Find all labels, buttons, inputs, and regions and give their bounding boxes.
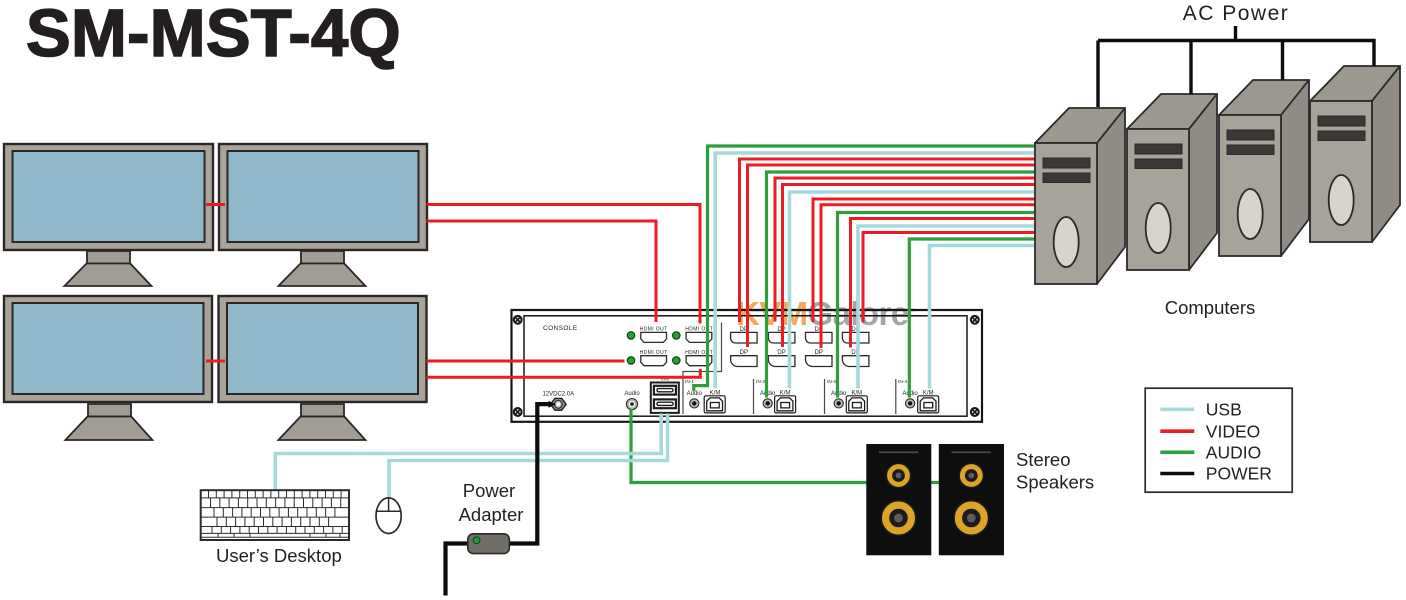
legend VIDEO line — [1160, 429, 1194, 433]
computer tower 1 — [1035, 108, 1125, 284]
wire video DP IN-1 row2 to computer 1 — [748, 165, 1038, 347]
DP port IN-2 row2 — [768, 350, 795, 366]
svg-text:POWER: POWER — [1206, 464, 1272, 484]
wire usb K/M IN-1 to computer 1 — [715, 153, 1037, 389]
svg-text:12VDC2.0A: 12VDC2.0A — [542, 392, 574, 398]
IN-2 K/M USB-B port — [775, 390, 796, 413]
IN-2 Audio jack — [760, 391, 776, 408]
IN-1 Audio jack — [687, 391, 703, 408]
svg-text:AC Power: AC Power — [1183, 2, 1290, 25]
IN-3 separator — [824, 379, 826, 414]
wire video DP IN-4 row2 to computer 4 — [851, 219, 1038, 348]
DP port IN-3 row2 — [806, 350, 833, 366]
wire usb K/M IN-4 to computer 4 — [930, 246, 1038, 389]
wire usb keyboard to console — [275, 414, 661, 491]
LED 3 — [627, 357, 634, 364]
wire AC power label tick — [1234, 26, 1237, 41]
DP port IN-2 row1 — [768, 327, 795, 343]
wire audio IN-3 to computer 3 — [838, 213, 1038, 398]
console/input divider — [683, 323, 722, 415]
console Audio jack — [624, 391, 640, 410]
wire audio console to speakers — [631, 409, 867, 483]
wire usb K/M IN-2 to computer 2 — [790, 192, 1038, 389]
screw top-left — [514, 316, 522, 324]
svg-text:IN-2: IN-2 — [756, 379, 765, 385]
HDMI OUT port 3 (row2 col1) — [640, 350, 668, 366]
wire AC drop computer 1 — [1096, 41, 1099, 108]
wire AC drop computer 3 — [1281, 41, 1284, 81]
DP port IN-4 row2 — [842, 350, 869, 366]
legend box — [1145, 388, 1292, 492]
DP port IN-4 row1 — [842, 327, 869, 343]
speaker left — [866, 444, 931, 555]
legend USB line — [1160, 407, 1194, 411]
DP port IN-3 row1 — [806, 327, 833, 343]
svg-text:USB: USB — [1206, 399, 1242, 419]
svg-text:SM-MST-4Q: SM-MST-4Q — [26, 0, 401, 71]
svg-text:HDMI OUT: HDMI OUT — [640, 326, 668, 332]
svg-text:IN-3: IN-3 — [827, 379, 836, 385]
wire power adapter to outlet — [446, 544, 469, 596]
monitor M3 (bottom-left) — [4, 296, 212, 440]
keyboard — [201, 490, 349, 540]
wire video M2 to HDMI port 2 — [427, 205, 701, 324]
svg-text:IN-4: IN-4 — [898, 379, 907, 385]
wire video M1-M2 bridge — [206, 203, 225, 206]
legend AUDIO line — [1160, 450, 1194, 454]
svg-text:HDMI OUT: HDMI OUT — [640, 350, 668, 356]
monitor M4 (bottom-right) — [219, 296, 427, 440]
IN-1 K/M USB-B port — [704, 390, 725, 413]
mouse — [376, 498, 401, 534]
wire video DP IN-2 row2 to computer 2 — [783, 185, 1038, 348]
DP port IN-1 row2 — [731, 350, 758, 366]
wire AC drop computer 2 — [1189, 41, 1192, 95]
HDMI OUT port 4 (row2 col2) — [685, 350, 713, 366]
svg-text:Adapter: Adapter — [459, 504, 524, 525]
IN-2 separator — [753, 379, 755, 414]
wire video M2 to HDMI port 1 — [427, 221, 657, 322]
svg-text:AUDIO: AUDIO — [1206, 443, 1261, 463]
wire video DP IN-3 row1 to computer 3 — [813, 199, 1037, 322]
wire video M4 to HDMI port 4 — [427, 369, 701, 377]
screw bottom-left — [514, 408, 522, 416]
LED 1 — [627, 332, 634, 339]
svg-text:Audio: Audio — [624, 391, 640, 397]
12VDC power jack — [542, 392, 574, 411]
DP port IN-1 row1 — [731, 327, 758, 343]
svg-text:Power: Power — [463, 480, 515, 501]
wire usb mouse to console — [389, 414, 668, 499]
wire audio IN-4 to computer 4 — [909, 239, 1037, 398]
wire video DP IN-2 row1 to computer 2 — [775, 178, 1037, 322]
screw bottom-right — [971, 408, 979, 416]
computer tower 3 — [1219, 80, 1309, 256]
svg-text:User’s Desktop: User’s Desktop — [216, 545, 342, 566]
wire power KVM jack to adapter — [510, 404, 550, 543]
wire audio IN-1 to computer 1 — [694, 146, 1037, 391]
IN-4 Audio jack — [902, 391, 918, 408]
computer tower 2 — [1127, 94, 1217, 270]
monitor M1 (top-left) — [4, 144, 213, 286]
wire usb K/M IN-3 to computer 3 — [858, 226, 1037, 389]
monitor M2 (top-right) — [219, 144, 427, 286]
IN-4 K/M USB-B port — [918, 390, 939, 413]
IN-3 Audio jack — [831, 391, 847, 408]
LED 4 — [673, 357, 680, 364]
power adapter body — [468, 534, 510, 554]
wire video DP IN-3 row2 to computer 3 — [821, 205, 1037, 348]
wire video DP IN-1 row1 to computer 1 — [740, 159, 1038, 322]
HDMI OUT port 2 (row1 col2) — [685, 326, 713, 342]
HDMI OUT port 1 (row1 col1) — [640, 326, 668, 342]
IN-4 separator — [895, 379, 897, 414]
legend POWER line — [1160, 472, 1194, 476]
wire video M3-M4 bridge — [206, 360, 225, 363]
wire video M4 to HDMI port 3 — [427, 360, 625, 363]
speaker right — [939, 444, 1004, 555]
console USB block (2x USB-A) — [651, 383, 679, 413]
svg-text:Computers: Computers — [1165, 297, 1255, 318]
KVM switch box — [512, 310, 983, 422]
svg-text:Audio: Audio — [687, 391, 703, 397]
screw top-right — [971, 316, 979, 324]
LED 2 — [673, 332, 680, 339]
svg-text:VIDEO: VIDEO — [1206, 421, 1260, 441]
wire video DP IN-4 row1 to computer 4 — [863, 233, 1037, 323]
wire AC drop computer 4 — [1372, 39, 1375, 66]
IN-3 K/M USB-B port — [846, 390, 867, 413]
svg-text:CONSOLE: CONSOLE — [543, 325, 578, 332]
computer tower 4 — [1310, 66, 1400, 242]
wire audio between speakers — [931, 481, 940, 484]
wire audio IN-2 to computer 2 — [767, 172, 1038, 398]
svg-text:Speakers: Speakers — [1016, 472, 1094, 493]
svg-text:Stereo: Stereo — [1016, 449, 1071, 470]
wire AC power bus — [1098, 39, 1374, 42]
